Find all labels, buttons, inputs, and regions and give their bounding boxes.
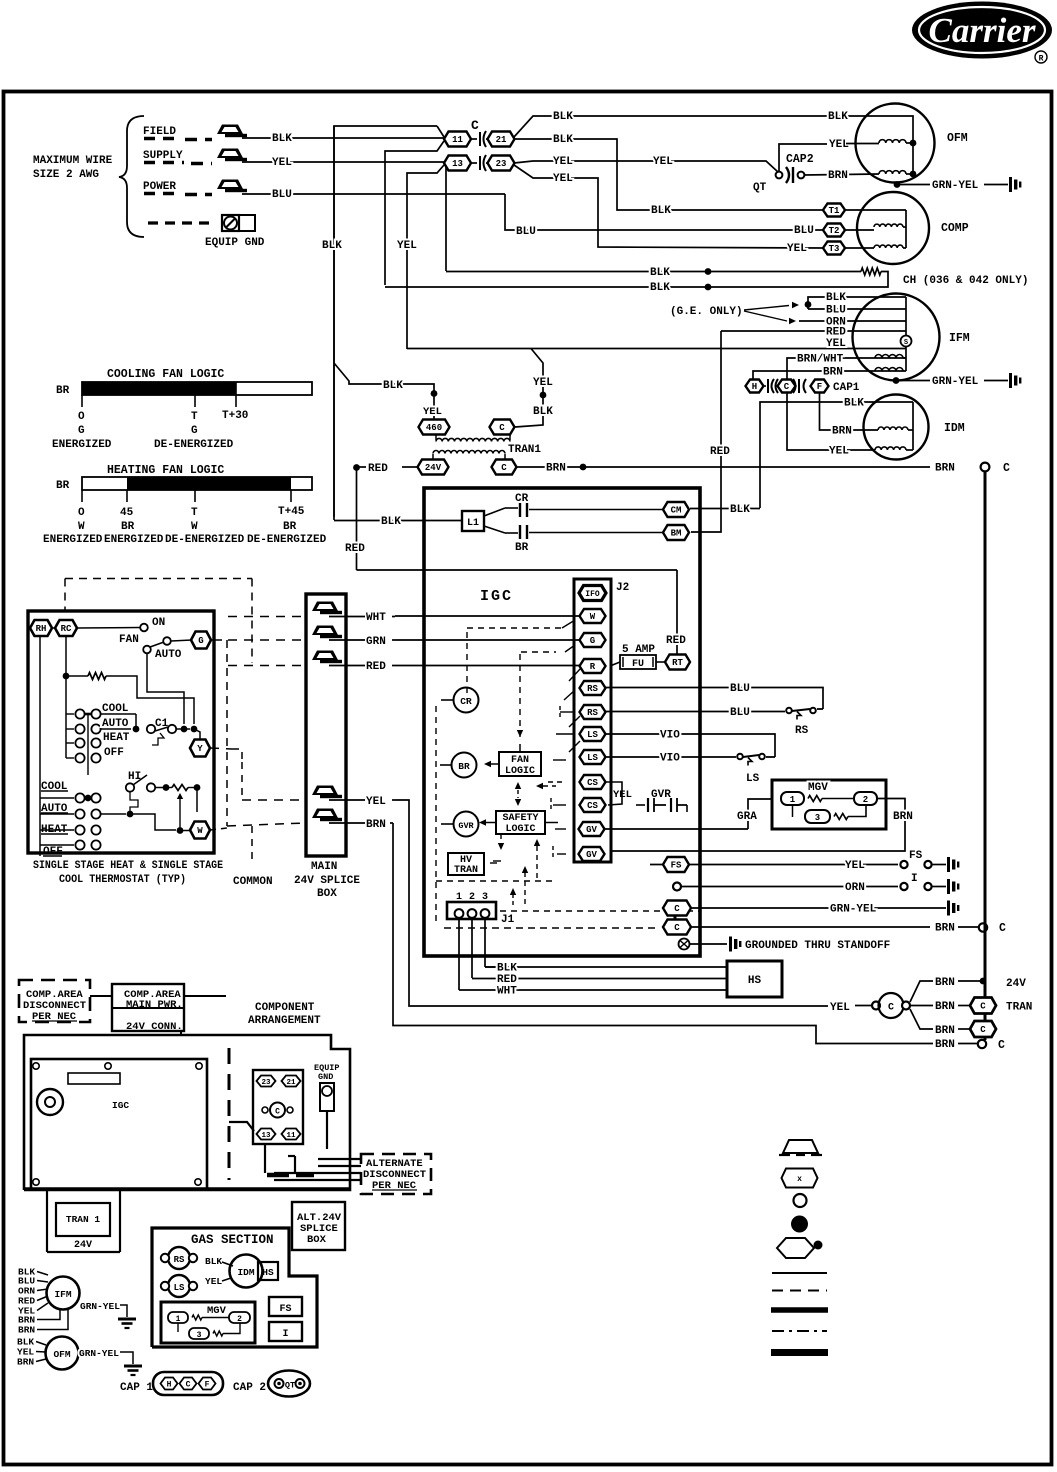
- svg-text:T3: T3: [829, 244, 840, 254]
- svg-text:BLK: BLK: [205, 1256, 222, 1267]
- wire GV1 to MGV: [603, 828, 748, 830]
- legend extra thick line: [771, 1349, 828, 1356]
- wire ORN ifm row: [799, 320, 906, 322]
- terminal W: [190, 822, 210, 839]
- svg-text:YEL: YEL: [613, 789, 632, 801]
- svg-text:24V: 24V: [425, 463, 442, 473]
- svg-text:C: C: [1003, 462, 1010, 475]
- wire YEL/BLK branch to tran1 C: [515, 349, 543, 428]
- wire riser to hex11 lower: [385, 141, 444, 285]
- svg-text:460: 460: [426, 423, 442, 433]
- transformer TRAN1 windings: [435, 434, 437, 440]
- svg-text:CAP 1: CAP 1: [120, 1382, 153, 1394]
- dashed long path y928: [444, 927, 660, 929]
- svg-text:C: C: [888, 1003, 894, 1014]
- ground grn-yel: [947, 901, 950, 916]
- fan auto link: [147, 653, 184, 724]
- wire VIO ls2: [606, 756, 736, 758]
- wire W row wht: [395, 615, 579, 617]
- svg-text:TRAN: TRAN: [1006, 1002, 1032, 1014]
- svg-text:BRN: BRN: [935, 923, 955, 935]
- svg-text:BLK: BLK: [272, 133, 292, 145]
- relay L1: [462, 511, 484, 531]
- svg-text:G: G: [590, 636, 595, 646]
- svg-text:COOL: COOL: [102, 703, 129, 715]
- grounded thru standoff symbol: [679, 939, 690, 950]
- svg-text:BRN: BRN: [935, 463, 955, 475]
- svg-text:AUTO: AUTO: [102, 718, 129, 730]
- svg-text:TRAN: TRAN: [454, 865, 478, 876]
- MGV solenoid 2: [854, 792, 877, 805]
- svg-text:T1: T1: [829, 206, 840, 216]
- svg-text:YEL: YEL: [829, 139, 849, 151]
- svg-text:BLK: BLK: [651, 205, 671, 217]
- dashed control path G to fan: [521, 651, 556, 653]
- svg-text:IFM: IFM: [949, 332, 970, 345]
- wire BRN mgv return: [610, 799, 905, 852]
- MGV resistor 3: [834, 814, 848, 820]
- sensor LS: [168, 1275, 190, 1297]
- wire GRN-YEL ifm comp: [79, 1304, 85, 1306]
- svg-text:(G.E. ONLY): (G.E. ONLY): [670, 306, 743, 318]
- wire between comp area boxes: [90, 995, 112, 997]
- svg-text:H: H: [752, 382, 757, 392]
- svg-text:COMMON: COMMON: [233, 876, 273, 888]
- resistor CH crankcase heater: [861, 268, 881, 275]
- svg-text:IGC: IGC: [480, 588, 513, 605]
- wire BRN/WHT ifm row: [787, 358, 906, 380]
- arrow ge to blk-blu jumper: [744, 306, 789, 311]
- wire BLK j1-3 to HS: [485, 966, 495, 968]
- connector C hex2: [663, 920, 691, 935]
- svg-text:24V SPLICE: 24V SPLICE: [294, 875, 360, 887]
- svg-text:CAP1: CAP1: [833, 382, 860, 394]
- svg-text:GV: GV: [586, 825, 597, 835]
- svg-text:COMPONENT: COMPONENT: [255, 1002, 315, 1014]
- svg-text:BLU: BLU: [826, 305, 846, 317]
- wire BLK CM to cap1 riser: [690, 508, 752, 510]
- svg-text:T: T: [191, 507, 198, 519]
- connector plug 11: [444, 132, 471, 147]
- connector RT hex: [665, 655, 690, 670]
- svg-text:BLK: BLK: [650, 282, 670, 294]
- svg-text:T: T: [191, 411, 198, 423]
- terminal C mid: [979, 923, 987, 931]
- J2 pin RS1: [580, 681, 606, 695]
- svg-text:L1: L1: [467, 518, 479, 529]
- svg-text:IFO: IFO: [585, 590, 600, 599]
- svg-text:RED: RED: [345, 543, 365, 555]
- motor COMP: [857, 192, 929, 264]
- svg-text:BRN: BRN: [935, 1025, 955, 1037]
- svg-text:HS: HS: [748, 975, 762, 987]
- box I gas: [269, 1322, 302, 1341]
- wire BLK CH row1: [446, 271, 861, 273]
- motor IFM: [853, 294, 940, 381]
- svg-text:C: C: [501, 463, 507, 473]
- svg-text:QT: QT: [753, 182, 767, 194]
- svg-text:ENERGIZED: ENERGIZED: [52, 439, 112, 451]
- connector T3: [823, 242, 845, 255]
- svg-text:BRN: BRN: [832, 426, 852, 438]
- box FS gas: [269, 1297, 302, 1316]
- logic block FAN LOGIC: [499, 752, 541, 776]
- transformer TRAN1 primary plug 460: [419, 420, 450, 435]
- svg-text:13: 13: [261, 1132, 271, 1140]
- svg-text:BRN: BRN: [828, 170, 848, 182]
- svg-text:BR: BR: [515, 542, 529, 554]
- J2 pin GV1: [579, 822, 605, 836]
- svg-text:GRN-YEL: GRN-YEL: [932, 180, 979, 192]
- svg-text:BLK: BLK: [533, 406, 553, 418]
- svg-text:1: 1: [176, 1315, 181, 1324]
- thermostat dashed boundary: [65, 578, 252, 580]
- svg-text:O: O: [78, 411, 85, 423]
- svg-text:MAIN: MAIN: [311, 861, 337, 873]
- dashed control path top: [466, 632, 468, 700]
- svg-text:BLU: BLU: [730, 707, 750, 719]
- J2 pin CS2: [580, 798, 606, 812]
- terminal C right top: [981, 463, 990, 472]
- svg-text:C: C: [674, 923, 680, 933]
- svg-text:YEL: YEL: [423, 406, 442, 418]
- svg-text:R: R: [590, 662, 596, 672]
- svg-text:J1: J1: [501, 914, 515, 926]
- equip gnd terminal: [222, 215, 239, 231]
- svg-text:H: H: [167, 1381, 172, 1390]
- svg-text:DE-ENERGIZED: DE-ENERGIZED: [154, 439, 234, 451]
- svg-text:GRN-YEL: GRN-YEL: [830, 904, 877, 916]
- svg-text:BLK: BLK: [383, 380, 403, 392]
- gas section enclosure: [152, 1228, 317, 1347]
- Carrier logo: [912, 2, 1052, 59]
- svg-text:2: 2: [863, 795, 868, 805]
- svg-text:W: W: [191, 521, 198, 533]
- svg-text:GRN: GRN: [366, 636, 386, 648]
- splice cap supply: [217, 149, 243, 159]
- component arrangement enclosure: [24, 1035, 350, 1190]
- wire YEL cap2 to OFM coil: [779, 144, 827, 171]
- svg-text:RT: RT: [672, 658, 683, 668]
- svg-text:BLK: BLK: [322, 240, 342, 252]
- wire BRN fan to 24V: [910, 981, 933, 1002]
- wire YEL splice to C circle: [396, 800, 828, 1006]
- sensor RS: [168, 1247, 190, 1269]
- svg-text:RS: RS: [587, 684, 598, 694]
- svg-text:YEL: YEL: [787, 243, 807, 255]
- wire BRN splice to C terminal: [393, 823, 933, 1044]
- wire RED to RT: [676, 570, 678, 655]
- fan switch AUTO: [143, 646, 151, 654]
- svg-text:COOL THERMOSTAT (TYP): COOL THERMOSTAT (TYP): [59, 874, 186, 886]
- J2 pin CS1: [580, 775, 606, 789]
- svg-text:23: 23: [261, 1079, 271, 1087]
- svg-text:BRN: BRN: [935, 1001, 955, 1013]
- wire GRN-YEL row: [691, 907, 946, 909]
- svg-text:Carrier: Carrier: [929, 11, 1036, 50]
- relay coil CR: [441, 699, 454, 701]
- svg-text:BR: BR: [56, 480, 70, 492]
- svg-text:BLU: BLU: [272, 189, 292, 201]
- wire YEL hex23 to T3: [514, 165, 823, 248]
- relay coil BR: [440, 764, 452, 766]
- svg-text:R: R: [1039, 55, 1044, 64]
- wire BLK to L1: [334, 520, 462, 522]
- svg-text:21: 21: [286, 1079, 296, 1087]
- J2 pin R: [580, 659, 606, 673]
- svg-text:RED: RED: [666, 635, 686, 647]
- svg-text:FS: FS: [909, 850, 923, 862]
- switch I ignitor: [900, 883, 907, 890]
- motor OFM: [856, 104, 935, 183]
- svg-text:HS: HS: [262, 1267, 274, 1278]
- svg-text:BLK: BLK: [844, 398, 864, 410]
- svg-text:W: W: [78, 521, 85, 533]
- valve MGV box: [772, 780, 886, 829]
- contact BR capacitor: [484, 526, 505, 533]
- svg-text:CM: CM: [671, 506, 682, 516]
- MGV resistor 1: [808, 796, 822, 802]
- svg-text:RH: RH: [36, 624, 47, 634]
- switch C1: [101, 713, 136, 715]
- svg-text:YEL: YEL: [272, 157, 292, 169]
- terminal G: [191, 632, 211, 649]
- svg-text:QT: QT: [285, 1381, 295, 1391]
- arrow ge to orn: [744, 311, 787, 321]
- svg-text:C: C: [499, 423, 505, 433]
- component OFM circle: [46, 1337, 79, 1370]
- svg-text:C: C: [186, 1381, 191, 1390]
- svg-text:BOX: BOX: [317, 888, 337, 900]
- connector C TRAN hex: [970, 998, 996, 1014]
- legend dashed line: [772, 1290, 827, 1292]
- J2 pin GV2: [579, 847, 605, 861]
- svg-text:SIZE 2 AWG: SIZE 2 AWG: [33, 169, 99, 181]
- J2 pin LS2: [580, 750, 606, 764]
- svg-text:CS: CS: [587, 778, 598, 788]
- splice cap WHT: [312, 602, 338, 612]
- relay coil GVR: [441, 823, 454, 825]
- wire BRN F to idm coil: [820, 393, 879, 430]
- transformer TRAN1 secondary plug C: [492, 460, 517, 475]
- svg-text:BLK: BLK: [826, 292, 846, 304]
- svg-text:OFM: OFM: [947, 132, 968, 145]
- transformer TRAN1 secondary plug 24V: [418, 460, 449, 475]
- svg-text:LS: LS: [746, 773, 760, 785]
- svg-text:EQUIP GND: EQUIP GND: [205, 237, 265, 249]
- connector plug 21: [488, 132, 515, 147]
- svg-text:RED: RED: [710, 446, 730, 458]
- svg-text:BLK: BLK: [497, 963, 517, 975]
- svg-text:RED: RED: [497, 974, 517, 986]
- svg-text:I: I: [282, 1329, 288, 1340]
- svg-text:BLK: BLK: [828, 111, 848, 123]
- svg-text:BLU: BLU: [516, 226, 536, 238]
- svg-text:11: 11: [452, 135, 463, 145]
- svg-text:C: C: [674, 904, 680, 914]
- svg-text:GRN-YEL: GRN-YEL: [80, 1301, 120, 1312]
- wire R row red: [395, 665, 579, 667]
- transformer TRAN 1 bay: [46, 1190, 48, 1252]
- svg-text:FIELD: FIELD: [143, 126, 176, 138]
- dashed cs gv bits: [548, 781, 566, 783]
- svg-text:OFF: OFF: [104, 747, 124, 759]
- svg-text:SAFETY: SAFETY: [502, 813, 538, 824]
- svg-text:VIO: VIO: [660, 753, 680, 765]
- wire RED rail into igc: [357, 569, 678, 571]
- svg-text:BLK: BLK: [381, 516, 401, 528]
- svg-text:BRN: BRN: [17, 1357, 34, 1368]
- svg-text:T+45: T+45: [278, 506, 305, 518]
- IGC board panel: [31, 1059, 207, 1189]
- svg-text:BRN: BRN: [366, 819, 386, 831]
- capacitor CAP1 terminals H C F: [746, 380, 764, 393]
- svg-text:21: 21: [496, 135, 507, 145]
- splice cap YEL: [312, 786, 338, 796]
- svg-text:ON: ON: [152, 617, 165, 629]
- dashed path hv tran: [490, 862, 497, 864]
- svg-text:C: C: [980, 1002, 986, 1012]
- wire BRN to TRAN hex: [910, 1005, 933, 1007]
- svg-text:T2: T2: [829, 226, 840, 236]
- brace maximum wire size 2 awg: [119, 116, 144, 237]
- svg-text:GND: GND: [318, 1072, 333, 1082]
- box HS gas: [258, 1262, 278, 1280]
- svg-text:BLK: BLK: [730, 504, 750, 516]
- svg-text:COMP: COMP: [941, 222, 969, 235]
- svg-text:CR: CR: [460, 696, 472, 707]
- svg-text:COOLING FAN LOGIC: COOLING FAN LOGIC: [107, 368, 224, 381]
- connector CM hex: [663, 502, 689, 517]
- svg-text:CH (036 & 042 ONLY): CH (036 & 042 ONLY): [903, 275, 1028, 287]
- wire YEL supply row: [242, 161, 444, 163]
- svg-text:RS: RS: [587, 708, 598, 718]
- dashed control path left: [435, 706, 437, 921]
- dashed box COMP.AREA DISCONNECT PER NEC: [19, 980, 90, 1022]
- J2 pin LS1: [580, 727, 606, 741]
- svg-text:FAN: FAN: [119, 634, 139, 646]
- svg-text:CS: CS: [587, 801, 598, 811]
- svg-text:DE-ENERGIZED: DE-ENERGIZED: [165, 534, 245, 546]
- svg-text:Y: Y: [197, 744, 203, 754]
- svg-text:GVR: GVR: [458, 821, 474, 831]
- wire BRN cap2 to OFM coil: [804, 174, 879, 175]
- svg-text:BRN: BRN: [935, 977, 955, 989]
- svg-text:DE-ENERGIZED: DE-ENERGIZED: [247, 534, 327, 546]
- splice C circle: [872, 1002, 880, 1010]
- svg-text:RS: RS: [174, 1255, 185, 1265]
- svg-text:FS: FS: [279, 1304, 291, 1315]
- J2 pin G: [580, 633, 606, 647]
- svg-text:YEL: YEL: [205, 1276, 222, 1287]
- svg-text:F: F: [817, 382, 822, 392]
- svg-text:FAN: FAN: [511, 755, 529, 766]
- relay plate: [253, 1070, 303, 1144]
- wire BLU ifm row: [808, 308, 906, 310]
- svg-text:BLU: BLU: [794, 225, 814, 237]
- svg-text:AUTO: AUTO: [155, 649, 182, 661]
- svg-text:BLK: BLK: [553, 134, 573, 146]
- svg-text:11: 11: [286, 1132, 296, 1140]
- svg-text:YEL: YEL: [397, 240, 417, 252]
- MGV solenoid 1: [781, 792, 804, 805]
- wire ORN row: [673, 883, 681, 891]
- terminal RC: [55, 620, 77, 636]
- wire BLU rs1: [606, 688, 823, 710]
- IGC control box outline: [424, 488, 700, 956]
- legend plug symbol: [782, 1169, 818, 1188]
- wire BLK vertical from field to L1: [334, 126, 437, 517]
- svg-text:POWER: POWER: [143, 181, 176, 193]
- legend junction dot: [791, 1216, 808, 1233]
- switch FS flame: [900, 861, 907, 868]
- legend thick line: [771, 1307, 828, 1313]
- svg-text:C: C: [784, 382, 790, 392]
- svg-text:G: G: [191, 425, 198, 437]
- IGC bottom j1 wires: [458, 918, 460, 990]
- svg-text:YEL: YEL: [533, 377, 553, 389]
- svg-text:24V: 24V: [1006, 978, 1026, 990]
- splice cap BRN: [312, 809, 338, 819]
- svg-text:RC: RC: [61, 624, 72, 634]
- svg-text:YEL: YEL: [653, 156, 673, 168]
- wire RED ifm row to BM hex: [721, 330, 906, 332]
- wire GRN-YEL ifm ground: [893, 377, 900, 384]
- svg-text:C: C: [275, 1108, 280, 1117]
- wire BLK top row hex21 to OFM: [514, 116, 913, 175]
- svg-text:YEL: YEL: [553, 173, 573, 185]
- svg-text:BRN: BRN: [893, 811, 913, 823]
- legend solid line: [772, 1272, 827, 1274]
- connector mate symbol row1: [471, 138, 477, 140]
- connector plug 13: [444, 156, 471, 171]
- wire BRN tran1 to C terminal right rail: [517, 466, 930, 468]
- svg-text:YEL: YEL: [829, 446, 849, 458]
- wire BRN to C hex lower: [910, 1009, 933, 1029]
- svg-text:MAIN PWR.: MAIN PWR.: [126, 999, 183, 1011]
- dashed divider: [228, 1048, 231, 1180]
- box COMP.AREA MAIN PWR 24V CONN: [112, 984, 184, 1031]
- svg-text:13: 13: [452, 159, 463, 169]
- terminal C bottom: [978, 1040, 986, 1048]
- wire BRN row to C: [691, 926, 930, 928]
- svg-text:C: C: [999, 922, 1006, 935]
- wire hex13 vertical to CH row: [445, 164, 447, 271]
- svg-text:GV: GV: [586, 850, 597, 860]
- ignitor HS box: [727, 961, 782, 997]
- transformer TRAN1 primary plug C: [490, 420, 515, 435]
- svg-text:T+30: T+30: [222, 410, 248, 422]
- terminal RH: [30, 620, 52, 636]
- svg-text:BLK: BLK: [553, 111, 573, 123]
- svg-text:1: 1: [790, 795, 796, 805]
- svg-text:YEL: YEL: [366, 796, 386, 808]
- svg-text:BLU: BLU: [730, 683, 750, 695]
- splice cap power: [217, 180, 243, 190]
- wire VIO ls1: [606, 734, 775, 757]
- wire YEL cs bracket: [606, 782, 622, 805]
- ground chassis OFM: [1009, 177, 1012, 192]
- wire YEL hex23 to QT cap: [514, 161, 778, 172]
- dashed R slant: [569, 668, 581, 681]
- connector strip J2: [574, 579, 611, 862]
- wire BLU power row to T2: [242, 193, 505, 195]
- switch LS limit: [766, 756, 775, 758]
- svg-text:I: I: [911, 873, 918, 885]
- dashed fan-safety arrows: [515, 782, 521, 789]
- legend splice cap symbol: [783, 1140, 818, 1153]
- dashed bottom path: [436, 880, 556, 882]
